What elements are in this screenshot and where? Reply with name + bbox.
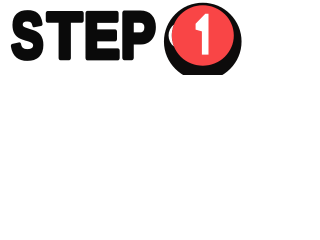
letter S: [11, 0, 43, 73]
svg-text:T: T: [47, 0, 82, 73]
letter E: [84, 0, 120, 72]
svg-text:S: S: [11, 0, 43, 73]
letter T: [47, 0, 82, 73]
svg-text:E: E: [84, 0, 120, 72]
letter P: [121, 0, 156, 72]
badge white crescent: [169, 25, 174, 47]
badge red disc: [172, 5, 234, 65]
badge dark circle (offset shadow, clipped at bottom): [164, 3, 242, 81]
digit 1: [196, 14, 209, 55]
svg-text:P: P: [121, 0, 156, 72]
